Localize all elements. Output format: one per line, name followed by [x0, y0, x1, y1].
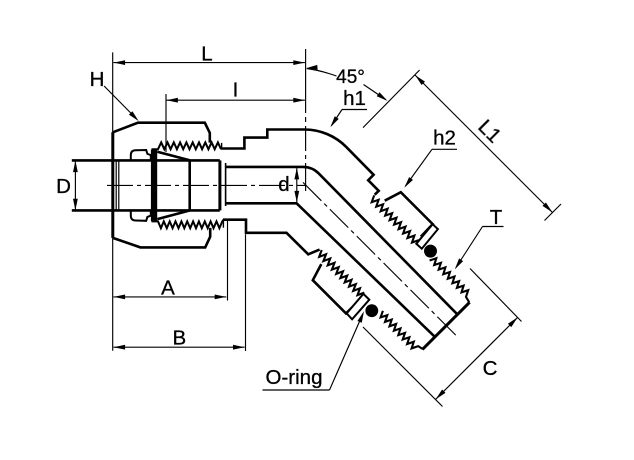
O-ring lower [365, 304, 378, 317]
body bottom profile [223, 220, 320, 255]
dim C [470, 269, 522, 322]
svg-text:d: d [278, 173, 289, 196]
dim D [74, 161, 76, 210]
svg-text:A: A [161, 276, 175, 299]
dim L [112, 52, 114, 350]
svg-text:B: B [172, 326, 186, 349]
body top staircase and outer bend [221, 130, 379, 195]
nut thread bottom [152, 220, 224, 229]
port thread upper 2 [430, 258, 470, 302]
svg-text:H: H [90, 68, 105, 91]
tube [72, 159, 220, 162]
svg-text:45°: 45° [336, 67, 365, 88]
nut thread top [152, 142, 222, 149]
svg-text:h2: h2 [433, 127, 456, 150]
svg-text:D: D [56, 175, 71, 198]
port thread lower 1 [319, 250, 364, 295]
body counterbore step [225, 163, 227, 206]
washer lower [347, 294, 370, 319]
neck top / inner upper line [226, 167, 457, 314]
back ferrule bottom [131, 210, 151, 220]
front ferrule cone [157, 152, 189, 161]
dim A [227, 221, 229, 301]
port thread upper 1 [372, 195, 419, 242]
centerline horizontal [107, 184, 307, 186]
dim I [165, 94, 167, 152]
dim L1 [363, 70, 420, 128]
thread runout faces [221, 143, 223, 149]
locknut lower [313, 264, 359, 313]
nut front face [111, 132, 114, 238]
nut outline top [113, 123, 210, 143]
dim B [245, 234, 247, 351]
nut outline bottom [113, 228, 210, 248]
port thread lower 2 [381, 311, 423, 349]
O-ring upper [424, 245, 437, 258]
locknut upper (h2) [385, 192, 433, 237]
back ferrule top [131, 150, 151, 160]
port end face [422, 302, 469, 349]
svg-text:O-ring: O-ring [266, 366, 323, 389]
dim 45deg [307, 69, 337, 77]
svg-text:T: T [490, 206, 503, 229]
svg-text:h1: h1 [343, 87, 366, 110]
svg-text:C: C [483, 357, 498, 380]
nut bore lines [115, 160, 117, 210]
neck bottom / inner lower line [226, 203, 435, 336]
dim d [296, 168, 298, 202]
svg-text:L: L [201, 43, 212, 66]
centerline 45 [303, 182, 457, 336]
front ferrule back band [151, 150, 157, 222]
svg-text:I: I [233, 79, 239, 102]
washer upper [416, 224, 438, 249]
centerline vertical [305, 49, 307, 191]
